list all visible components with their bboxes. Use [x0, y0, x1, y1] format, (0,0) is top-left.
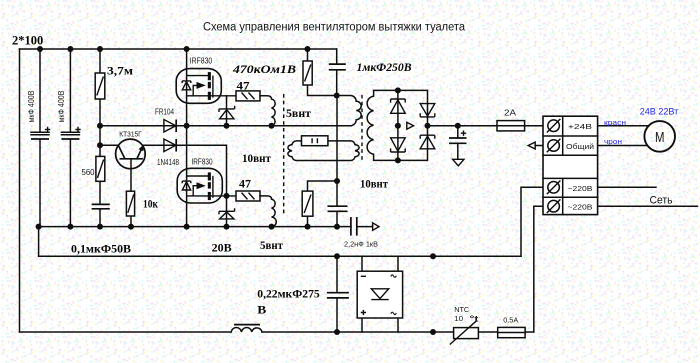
junction dot M2 gate node [224, 193, 230, 199]
svg-text:мкФ 400В: мкФ 400В [57, 91, 66, 123]
junction node primary top [334, 93, 340, 99]
wire fuse to terminal 1 [525, 125, 543, 127]
wire base rail y=145.3 right to M2 gate [143, 145, 227, 196]
diode VD2 1N4148 [164, 139, 176, 152]
wire terminal 4 right [598, 205, 698, 207]
wire terminal 3 right [598, 186, 656, 188]
wire mains riser to terminal 4 [534, 206, 543, 332]
capacitor C3 [92, 204, 110, 208]
wire primary centre to feedback node [336, 96, 338, 227]
inductor drive winding L3 [260, 196, 276, 227]
terminal block row lines [543, 136, 598, 197]
VT2 body arrow [193, 82, 206, 96]
winding W3 secondary with rectifier loop [367, 90, 427, 160]
diode VD5c [420, 104, 435, 117]
svg-text:24В 22Вт: 24В 22Вт [640, 107, 679, 118]
svg-text:1N4148: 1N4148 [157, 158, 179, 167]
capacitor C8 0,22мкФ [327, 293, 349, 298]
terminal pin 4 [547, 199, 561, 213]
svg-text:~220В: ~220В [568, 184, 593, 193]
svg-text:FR104: FR104 [155, 108, 174, 117]
svg-text:0.5A: 0.5A [503, 315, 518, 324]
junction dots common rail y226.6 [36, 224, 340, 230]
VT3 source link to gate node [187, 195, 236, 197]
VT2 channel segments [208, 72, 211, 100]
svg-text:°t: °t [470, 314, 479, 324]
op MOSFET VT3 IRF830 body [177, 168, 222, 203]
svg-text:10: 10 [454, 314, 463, 323]
diode VD5d [420, 135, 435, 149]
svg-text:Общий: Общий [566, 142, 594, 151]
VT3 drain link [187, 175, 208, 177]
wire primary centre branch x=337 [336, 49, 338, 96]
inductor drive winding L2 [260, 96, 275, 126]
resistor R7 47 [236, 191, 260, 201]
capacitor C5 electrolytic output [449, 131, 467, 144]
junction dot base rail [97, 142, 103, 148]
drive transformer core dashed [283, 94, 285, 215]
op MOSFET VT2 IRF830 body [176, 69, 221, 104]
wire terminal 2 to motor [598, 145, 648, 147]
svg-text:2*100: 2*100 [12, 34, 43, 48]
junction dots mains wire y332 [334, 329, 436, 335]
terminal block XT outline [543, 116, 598, 214]
svg-text:560: 560 [82, 168, 96, 177]
diode VD5a [391, 99, 406, 113]
resistor R4 470кОм [303, 61, 312, 85]
wire mains filter cap branch [336, 256, 338, 332]
wire bottom mains right [262, 331, 534, 333]
wire bridge VD6 top leads [362, 256, 398, 271]
terminal pin 2 [547, 139, 561, 153]
main transformer core dashed [361, 95, 363, 162]
winding W1 primary racetrack [337, 96, 362, 126]
VT3 gate bar [212, 176, 214, 198]
VT2 gate bar [212, 76, 214, 98]
zener VD4 [219, 208, 235, 219]
terminal pin 1 [547, 119, 561, 133]
svg-text:5внт: 5внт [286, 108, 311, 120]
svg-text:КТ315Г: КТ315Г [119, 129, 142, 138]
svg-text:Схема управления вентилятором: Схема управления вентилятором вытяжки ту… [203, 22, 466, 34]
svg-text:3,7м: 3,7м [107, 66, 133, 78]
svg-text:47: 47 [239, 179, 251, 191]
wire zener VD4 branch [226, 196, 228, 227]
node arrow common below C5 [453, 159, 464, 166]
VT3 channel segments [208, 172, 211, 200]
wire terminal 1 to motor [598, 125, 649, 127]
capacitor C7 2,2нФ [351, 217, 357, 236]
svg-text:IRF830: IRF830 [190, 57, 213, 66]
svg-text:5внт: 5внт [260, 240, 283, 252]
svg-text:0,1мкФ50В: 0,1мкФ50В [71, 244, 131, 256]
wire bottom mains left [20, 331, 232, 333]
svg-text:Сеть: Сеть [650, 195, 673, 207]
diode VD5b [391, 138, 406, 152]
capacitor C1 electrolytic [31, 127, 50, 139]
VT3 body arrow [193, 182, 206, 196]
wire MOSFET branch x=186.6 [186, 49, 188, 227]
junction dots mains wire y256.3 [334, 253, 436, 259]
svg-text:0,22мкФ275: 0,22мкФ275 [257, 288, 320, 300]
thermistor NTC [450, 321, 479, 345]
wire bridge output to fuse [428, 125, 498, 127]
wire zener VD3 branch [226, 96, 228, 126]
inductor L1 core bar [234, 324, 260, 326]
resistor R3 10к [126, 191, 134, 216]
svg-text:47: 47 [237, 81, 250, 93]
svg-text:10к: 10к [143, 199, 158, 211]
svg-text:20В: 20В [212, 242, 232, 254]
capacitor C2 electrolytic [61, 127, 80, 139]
fuse FU1 2A [497, 121, 525, 131]
svg-text:~220В: ~220В [568, 203, 593, 212]
VT2 drain link [187, 75, 208, 77]
node arrow common at C7 [373, 223, 379, 231]
wire 470k resistor leads [308, 49, 337, 96]
resistor R5 [302, 191, 313, 216]
svg-text:мкФ 400В: мкФ 400В [27, 91, 36, 123]
node arrow common at terminal 2 [528, 142, 535, 149]
resistor R6 47 [236, 91, 260, 101]
terminal pin 3 [547, 181, 561, 195]
wire R5 leads [308, 181, 338, 227]
VT2 source link to gate node [187, 95, 236, 97]
svg-text:+24В: +24В [568, 122, 592, 131]
inductor L1 [231, 328, 262, 332]
junction dots node rail y125.8 [97, 123, 275, 129]
svg-text:красн: красн [604, 118, 626, 127]
junction dots top rail [37, 46, 311, 52]
wire oscillator common rail [39, 226, 351, 228]
bridge VD6 block [357, 271, 402, 318]
svg-text:NTC: NTC [454, 305, 470, 314]
resistor R1 3,7м [95, 73, 105, 99]
wire bridge VD6 bottom leads [362, 318, 398, 332]
svg-text:M: M [655, 129, 665, 146]
wire cap C1 branch [39, 49, 41, 227]
node arrow common at rectifier [407, 122, 414, 129]
svg-text:2A: 2A [504, 109, 517, 118]
zener VD3 [219, 106, 235, 119]
VT3 body diode [182, 181, 191, 190]
feedback winding box [302, 136, 328, 146]
wire divider branch x=100 [99, 49, 101, 227]
wire transistor base lead [130, 159, 132, 227]
wire common arrow to terminal 2 [535, 145, 543, 147]
wire cap C2 branch [69, 49, 71, 227]
resistor R2 560 [96, 156, 105, 181]
transistor VT1 КТ315Г [116, 139, 146, 169]
wire base rail y=145.3 left [100, 144, 118, 146]
capacitor C6 [328, 206, 348, 211]
capacitor C4 1мкФ250В [329, 64, 346, 70]
wire common rail to arrow [357, 226, 373, 228]
svg-text:2,2нФ 1кВ: 2,2нФ 1кВ [344, 242, 378, 249]
svg-text:1мкФ250В: 1мкФ250В [357, 62, 412, 74]
wire top rail [20, 48, 337, 50]
wire node A rail y=125.8 [100, 125, 351, 127]
fuse FU2 0.5A [498, 327, 525, 337]
capacitor C5 leads [457, 126, 459, 160]
motor M [644, 121, 675, 152]
wire jog from oscillator common down [38, 227, 40, 257]
svg-text:чрон: чрон [604, 137, 622, 146]
junction node feedback tap [334, 178, 340, 184]
terminal block divider [562, 116, 564, 214]
winding W2 feedback racetrack [288, 141, 359, 161]
svg-text:10внт: 10внт [242, 153, 271, 165]
svg-text:В: В [257, 305, 266, 317]
diode VD1 FR104 [164, 120, 176, 133]
wire 0,1mkF50V rail [39, 255, 521, 257]
svg-text:IRF830: IRF830 [192, 158, 213, 167]
svg-text:470кОм1В: 470кОм1В [232, 62, 296, 76]
wire riser to terminal 3 [521, 187, 543, 256]
rectifier left branch wire [397, 90, 399, 160]
junction dots rectifier [395, 87, 461, 163]
wire left edge vertical [19, 49, 21, 332]
svg-text:10внт: 10внт [360, 179, 388, 191]
VT2 body diode [182, 81, 191, 90]
